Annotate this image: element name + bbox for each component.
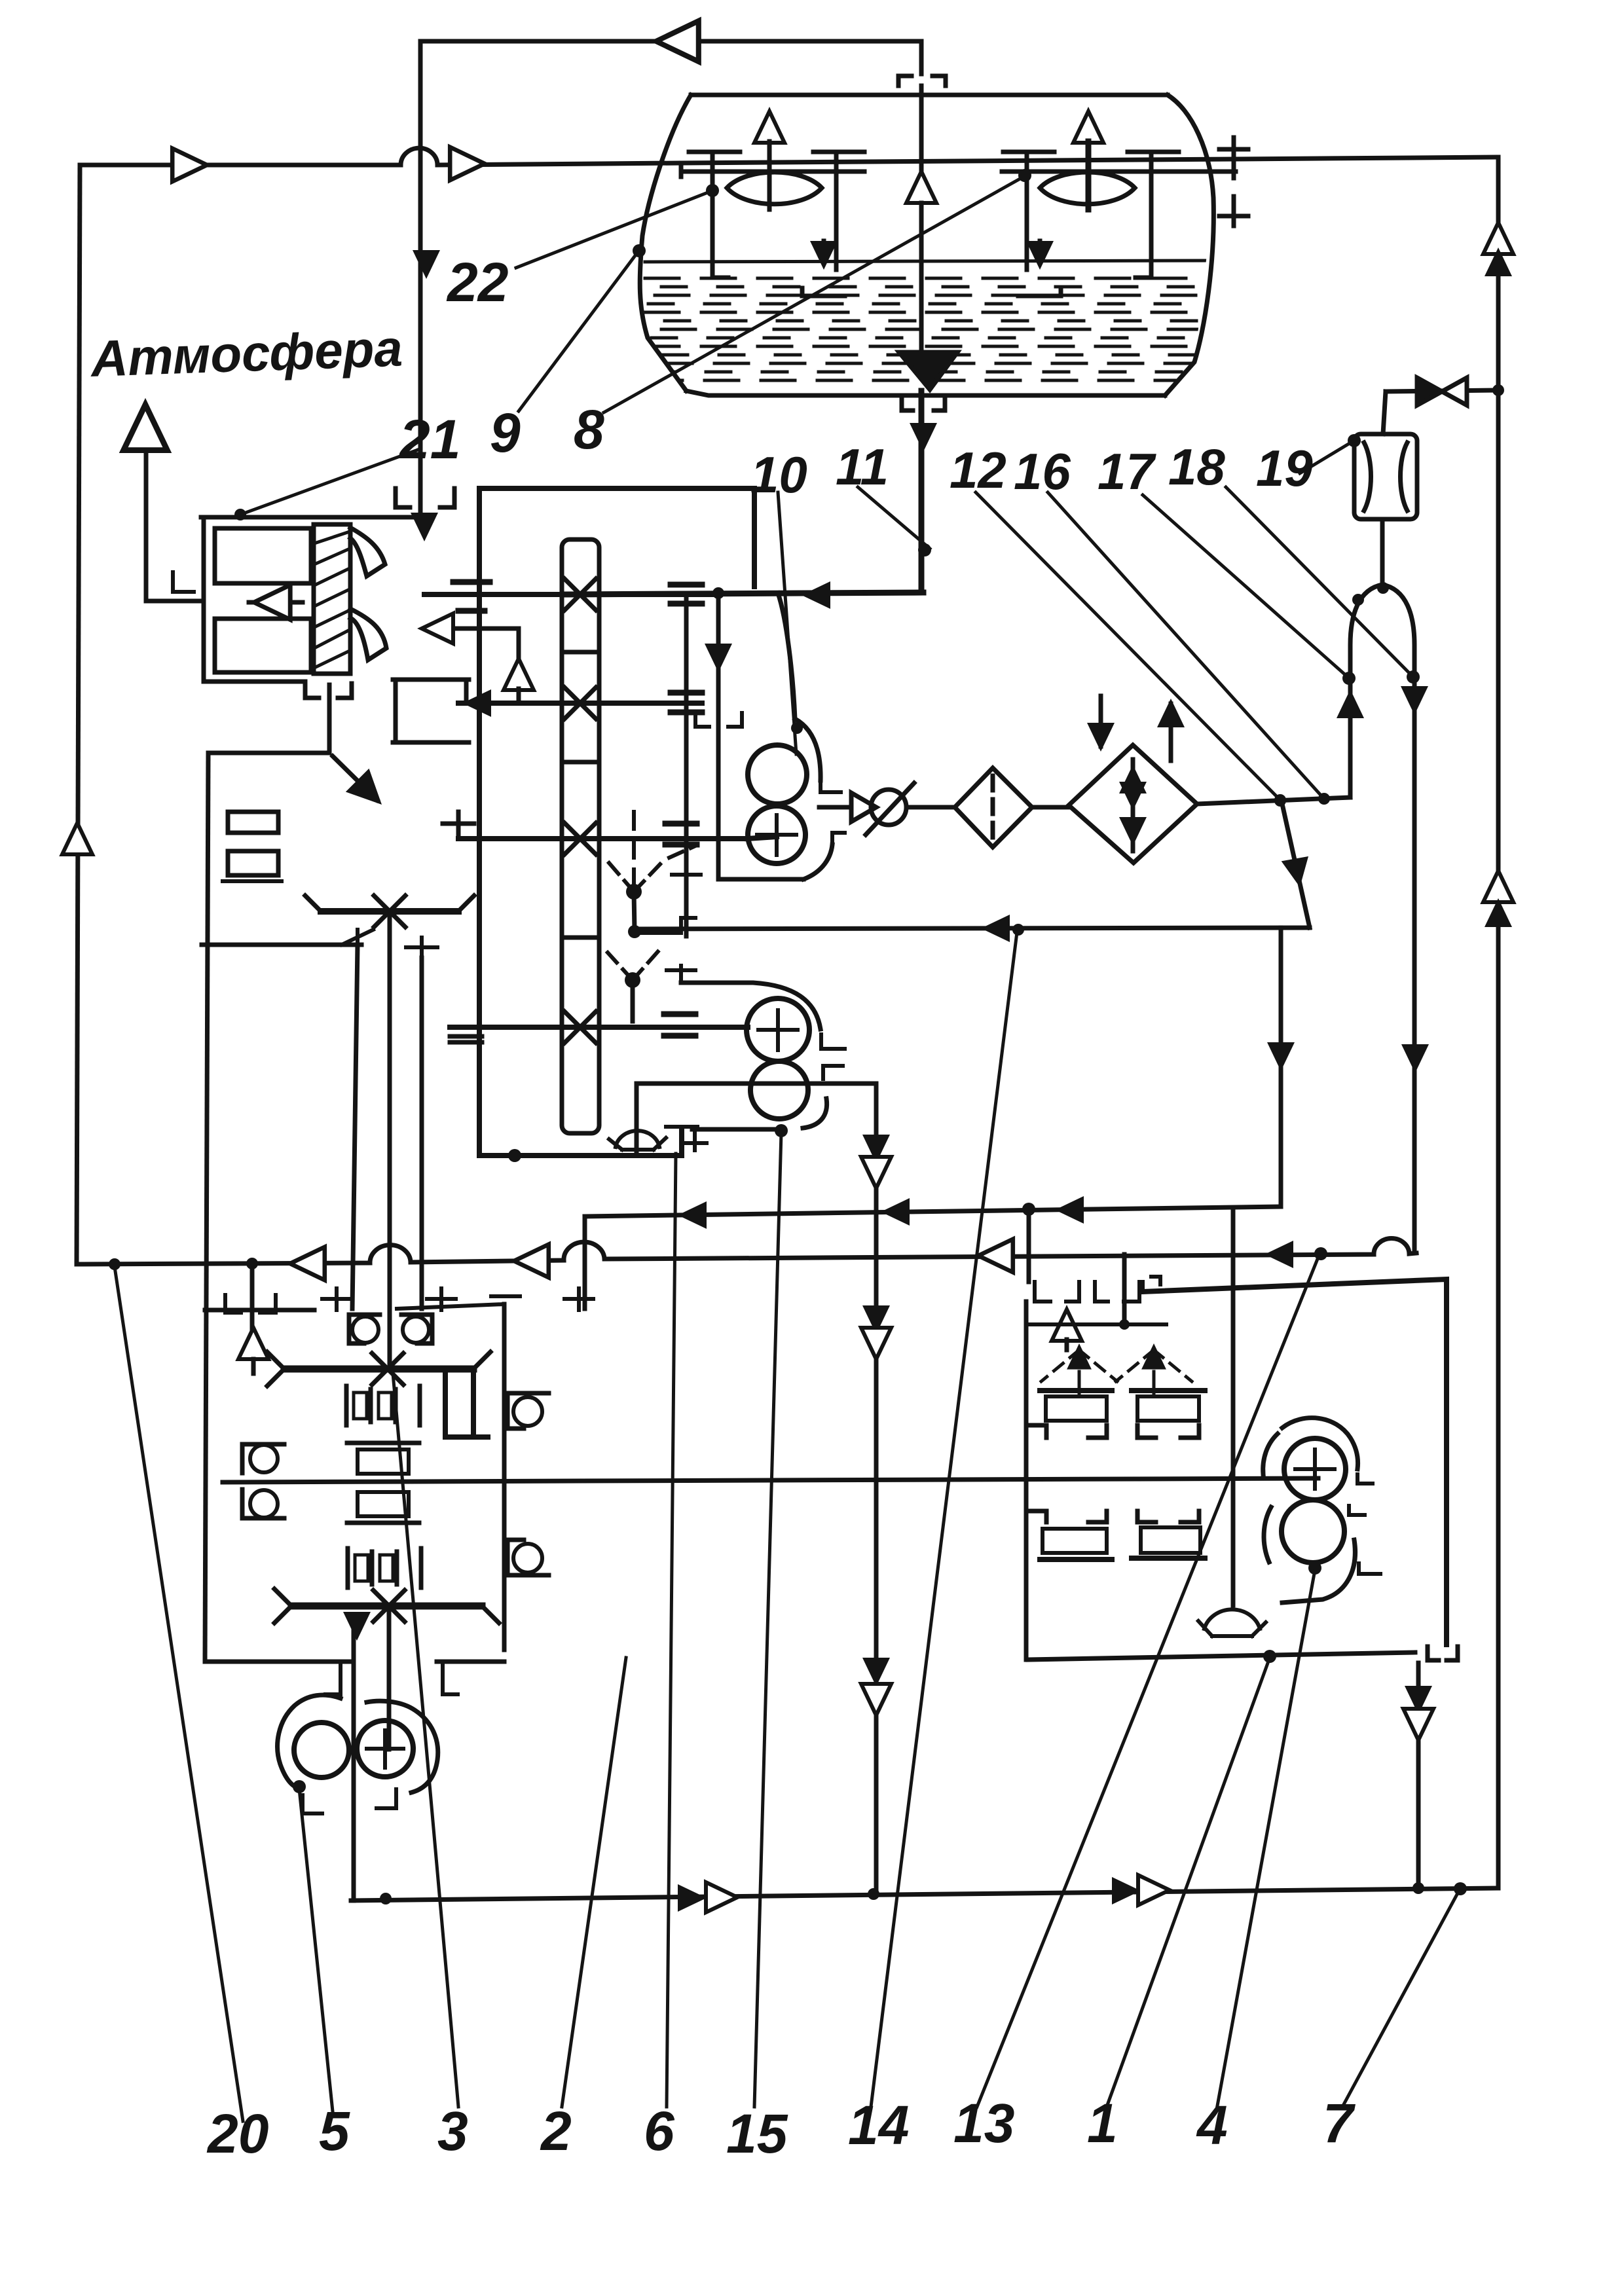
svg-text:10: 10 (750, 446, 807, 503)
svg-text:7: 7 (1323, 2092, 1356, 2154)
svg-text:6: 6 (644, 2100, 675, 2162)
svg-text:Атмосфера: Атмосфера (89, 319, 404, 388)
svg-text:21: 21 (398, 409, 460, 470)
svg-text:20: 20 (206, 2103, 268, 2164)
svg-text:5: 5 (319, 2100, 350, 2162)
svg-text:13: 13 (953, 2092, 1014, 2154)
svg-text:16: 16 (1014, 443, 1071, 500)
svg-text:12: 12 (950, 441, 1006, 499)
svg-text:14: 14 (848, 2094, 909, 2156)
svg-text:15: 15 (726, 2103, 788, 2164)
svg-text:2: 2 (540, 2100, 572, 2162)
svg-text:4: 4 (1196, 2094, 1228, 2156)
svg-text:19: 19 (1256, 439, 1313, 497)
svg-text:9: 9 (490, 402, 521, 464)
svg-text:3: 3 (437, 2100, 468, 2162)
svg-text:8: 8 (574, 399, 604, 460)
svg-text:18: 18 (1168, 438, 1225, 496)
svg-text:17: 17 (1098, 443, 1156, 500)
svg-text:22: 22 (446, 251, 508, 313)
svg-text:11: 11 (836, 438, 889, 496)
svg-text:1: 1 (1087, 2092, 1118, 2154)
